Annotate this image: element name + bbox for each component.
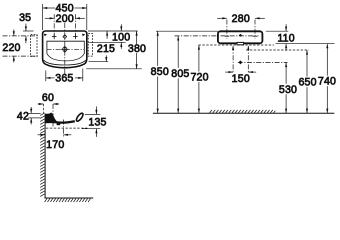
dim line 720: [190, 45, 208, 113]
dim 215: [89, 43, 116, 62]
dim line 740: [318, 44, 336, 114]
dim line 650: [298, 50, 316, 113]
dim 135: [82, 106, 107, 136]
dim line 850: [151, 31, 169, 113]
fixing axis chain line: [175, 35, 259, 37]
dim 220: [2, 30, 39, 63]
basin plan inner rim: [47, 41, 84, 61]
dim 170: [38, 120, 72, 151]
basin section front rim: [75, 112, 84, 122]
svg-text:365: 365: [55, 73, 73, 85]
drain crosshair: [61, 46, 68, 53]
svg-text:200: 200: [56, 13, 74, 25]
basin plan outer outline: [43, 31, 87, 68]
floor line (section): [44, 197, 93, 199]
front view centre diamond: [239, 34, 242, 37]
basin section waste stub: [57, 123, 61, 125]
left bracket dashed rect: [31, 35, 37, 57]
svg-text:42: 42: [17, 111, 29, 123]
dim 100: [88, 24, 138, 49]
right bracket dashed rect: [88, 34, 92, 57]
dim line 805: [171, 36, 189, 113]
section under dash line: [46, 127, 88, 129]
dim 365: [46, 69, 83, 85]
dim 35: [19, 12, 33, 43]
svg-text:150: 150: [232, 73, 250, 85]
svg-text:170: 170: [46, 139, 64, 151]
dim 150: [225, 71, 256, 85]
svg-text:740: 740: [318, 76, 336, 88]
dim 450: [43, 3, 87, 30]
dim 380: [86, 31, 146, 69]
dim line 530: [279, 62, 297, 113]
basin section bowl floor: [57, 121, 75, 122]
dim 60: [37, 92, 59, 127]
fixing hole mark right: [82, 34, 85, 37]
floor line (front view): [153, 112, 334, 114]
svg-text:650: 650: [298, 77, 316, 89]
svg-text:220: 220: [2, 42, 20, 54]
tap hole left: [52, 34, 57, 39]
tap hole centre diamond: [63, 35, 67, 39]
svg-text:35: 35: [19, 12, 31, 24]
supply line right: [247, 45, 249, 73]
tap hole right: [73, 34, 78, 39]
front view fixing hole right: [253, 35, 257, 37]
waste axis chain line: [238, 61, 288, 63]
svg-text:850: 850: [151, 66, 169, 78]
plan drain axis chain: [47, 48, 85, 50]
basin front view body: [218, 31, 263, 43]
dim 200: [45, 13, 85, 39]
waste diamond: [239, 60, 243, 64]
svg-text:60: 60: [42, 92, 54, 104]
dim 110: [266, 24, 295, 51]
plan centre line: [64, 23, 66, 74]
underside dashed line: [199, 44, 274, 46]
front view drain tab: [237, 42, 244, 44]
svg-text:380: 380: [128, 43, 146, 55]
dim 42: [17, 107, 41, 125]
svg-text:720: 720: [190, 72, 208, 84]
svg-text:805: 805: [171, 68, 189, 80]
supply line left: [232, 45, 234, 73]
floor hatch (section): [45, 198, 91, 202]
svg-text:530: 530: [279, 84, 297, 96]
hidden bowl dashed line: [246, 49, 309, 51]
svg-text:110: 110: [277, 32, 295, 44]
right extension line: [276, 43, 335, 45]
floor hatch (front view): [210, 110, 276, 113]
svg-text:100: 100: [112, 32, 130, 44]
svg-text:135: 135: [88, 117, 106, 129]
wall hatch (section): [40, 113, 44, 196]
wall face line: [44, 114, 46, 198]
svg-text:215: 215: [97, 43, 115, 55]
top left extension line: [156, 30, 218, 32]
dim 280: [217, 13, 265, 39]
fixing hole mark left: [44, 34, 47, 37]
svg-text:280: 280: [232, 13, 250, 25]
basin section back profile: [45, 113, 58, 124]
front view fixing hole left: [225, 35, 229, 37]
